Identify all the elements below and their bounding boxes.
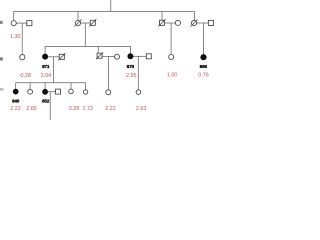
svg-text:1.72: 1.72 xyxy=(83,106,94,112)
svg-text:840: 840 xyxy=(12,99,20,104)
svg-text:1.30: 1.30 xyxy=(10,34,21,40)
svg-text:2.22: 2.22 xyxy=(10,106,21,112)
svg-text:2.22: 2.22 xyxy=(105,106,116,112)
svg-text:852: 852 xyxy=(42,99,50,104)
svg-text:2.93: 2.93 xyxy=(136,106,147,112)
svg-text:2.85: 2.85 xyxy=(26,106,37,112)
svg-text:871: 871 xyxy=(42,64,50,69)
svg-text:1.00: 1.00 xyxy=(167,73,178,79)
svg-text:2.95: 2.95 xyxy=(126,73,137,79)
svg-text:2.04: 2.04 xyxy=(41,73,52,79)
svg-text:878: 878 xyxy=(127,64,135,69)
svg-text:0.76: 0.76 xyxy=(198,73,209,79)
svg-text:3.39: 3.39 xyxy=(69,106,80,112)
svg-text:-0.28: -0.28 xyxy=(19,73,31,79)
svg-text:866: 866 xyxy=(200,64,208,69)
